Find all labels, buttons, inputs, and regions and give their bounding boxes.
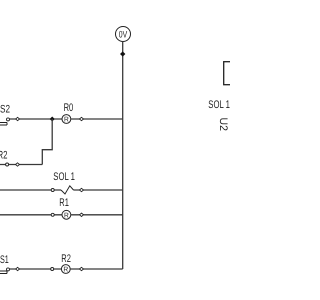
solenoid SOL1 zigzag	[61, 186, 74, 194]
label R2 (coil)	[61, 253, 71, 265]
terminal circle row3	[51, 189, 54, 192]
junction node A	[50, 116, 55, 121]
svg-text:R: R	[64, 117, 69, 124]
supply terminal 0V	[116, 27, 131, 42]
limit switch S1	[0, 268, 10, 274]
label R0	[64, 102, 74, 114]
wire row4 left	[0, 214, 62, 216]
junction on bus	[120, 51, 125, 56]
terminal circle row2	[6, 163, 9, 166]
label SOL 1 (right)	[208, 99, 230, 111]
label S1	[0, 254, 9, 266]
label R2 (contact)	[0, 149, 8, 161]
svg-text:U2: U2	[217, 118, 229, 132]
svg-text:R2: R2	[0, 149, 8, 161]
contact R2 wire	[0, 164, 42, 166]
svg-text:S1: S1	[0, 254, 9, 266]
svg-text:0V: 0V	[119, 29, 128, 40]
terminal circle row4	[51, 213, 54, 216]
svg-text:R2: R2	[61, 253, 71, 265]
relay coil R1	[62, 210, 71, 219]
svg-text:R: R	[63, 267, 68, 274]
valve box (cut off at right edge)	[224, 62, 233, 85]
label S2	[0, 104, 10, 116]
limit switch S2	[0, 118, 10, 125]
connector diamond row5 right	[80, 267, 84, 270]
bus wire (0V vertical)	[122, 41, 124, 269]
connector diamond row3	[80, 188, 84, 191]
label SOL 1	[53, 171, 75, 183]
connector diamond row1 right	[80, 117, 84, 120]
relay coil R0	[62, 115, 71, 124]
relay coil R2	[61, 265, 70, 274]
connector diamond row5 left	[16, 267, 20, 270]
svg-text:R: R	[64, 212, 69, 219]
svg-text:SOL 1: SOL 1	[208, 99, 230, 111]
wire row5 left	[10, 268, 62, 270]
wire row5 right	[70, 268, 123, 270]
wire row4 right	[71, 214, 123, 216]
label U2 (rotated, cut off)	[217, 118, 229, 132]
connector diamond row2	[16, 163, 20, 166]
wire branch: R2 contact up to node A	[42, 119, 52, 165]
wire row3 left	[0, 189, 61, 191]
label R1	[59, 197, 69, 209]
connector diamond row4	[80, 213, 84, 216]
svg-text:S2: S2	[0, 104, 10, 116]
svg-text:R0: R0	[64, 102, 74, 114]
terminal circle row5	[51, 268, 54, 271]
wire row3 right	[74, 189, 123, 191]
connector diamond row1 left	[16, 117, 20, 120]
wire row1 left	[10, 118, 63, 120]
svg-text:R1: R1	[59, 197, 69, 209]
wire row1 mid	[71, 118, 123, 120]
svg-text:SOL 1: SOL 1	[53, 171, 75, 183]
